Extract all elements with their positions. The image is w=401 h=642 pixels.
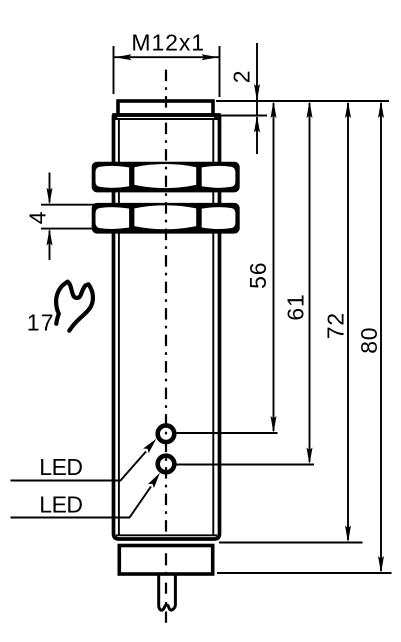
LED2 reference line xyxy=(177,464,315,466)
barrel outline xyxy=(114,115,220,539)
LED indicator 1 xyxy=(158,425,175,442)
centerline bottom xyxy=(165,553,167,623)
LED indicator 2 xyxy=(158,456,175,473)
svg-text:LED: LED xyxy=(39,492,82,518)
dimension 2 arrows xyxy=(256,43,258,116)
svg-text:2: 2 xyxy=(229,70,255,84)
dimension line 61 xyxy=(282,101,312,465)
LED1 reference line xyxy=(177,432,278,434)
dimension line M12x1 xyxy=(115,56,219,58)
svg-text:4: 4 xyxy=(24,211,50,225)
svg-text:56: 56 xyxy=(245,262,271,289)
centerline xyxy=(165,70,167,545)
sensor cap (sensing face) xyxy=(118,101,213,115)
flange reference line xyxy=(221,115,267,117)
connector pin xyxy=(159,576,176,611)
80 reference line xyxy=(217,572,392,574)
extension line left M12 xyxy=(113,46,115,94)
top reference line xyxy=(216,100,389,102)
wrench icon xyxy=(56,282,93,331)
barrel top chamfer right xyxy=(214,116,220,121)
svg-text:72: 72 xyxy=(323,312,349,339)
extension line right M12 xyxy=(219,46,221,97)
thread line right xyxy=(212,119,214,535)
svg-text:17: 17 xyxy=(27,310,55,336)
end cap (connector housing) xyxy=(119,546,212,575)
barrel top edge xyxy=(112,113,221,117)
svg-text:M12x1: M12x1 xyxy=(131,30,205,56)
dimension line 72 xyxy=(323,101,352,543)
svg-text:LED: LED xyxy=(39,454,82,480)
LED leader line 1 xyxy=(11,452,147,481)
dimension line 56 xyxy=(245,101,277,433)
hex nut 2 xyxy=(92,203,240,234)
dimension 4 xyxy=(24,173,94,261)
svg-text:80: 80 xyxy=(356,327,382,354)
LED leader line 2 xyxy=(11,487,152,518)
thread line left xyxy=(118,119,120,535)
hex nut 1 xyxy=(92,162,240,193)
barrel top chamfer left xyxy=(114,116,118,121)
thread top thin line xyxy=(114,118,219,120)
svg-text:61: 61 xyxy=(282,293,308,320)
72 reference line xyxy=(219,542,363,544)
dimension line 80 xyxy=(356,101,384,573)
thread bottom thin line xyxy=(116,534,217,536)
